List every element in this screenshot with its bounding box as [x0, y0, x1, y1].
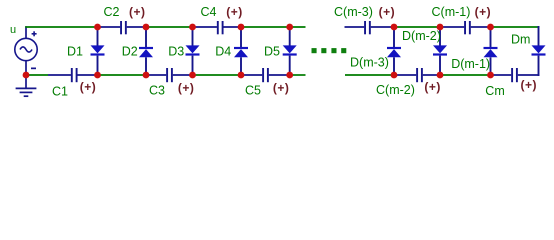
wire top rail navy: C2 to D2 node [127, 26, 146, 28]
wire bottom rail green: D3 node to D4 node [193, 74, 242, 76]
diode D1 [91, 26, 105, 76]
svg-text:D(m-3): D(m-3) [350, 55, 389, 69]
wire top rail navy: D3 node to C4 [193, 26, 217, 28]
svg-text:Dm: Dm [511, 33, 530, 47]
wire bottom rail navy: D(m-1) node to Cm [491, 74, 512, 76]
capacitor C(m-1) [464, 21, 471, 34]
wire bottom rail navy: C(m-2) to D(m-2) node [423, 74, 440, 76]
wire top rail navy: D1 node to C2 [98, 26, 121, 28]
svg-text:(+): (+) [178, 81, 195, 95]
diode D(m-1) [484, 26, 498, 76]
wire bottom rail green: D(m-2) node to D(m-1) node [440, 74, 491, 76]
svg-text:D(m-1): D(m-1) [451, 57, 490, 71]
junction dots top rail [94, 24, 494, 31]
svg-text:C5: C5 [245, 84, 261, 98]
svg-text:(+): (+) [379, 5, 396, 19]
wire source bottom vertical [25, 61, 27, 75]
svg-text:(+): (+) [521, 78, 538, 92]
svg-text:C(m-3): C(m-3) [334, 5, 373, 19]
wire bottom rail navy: Cm to Dm corner [518, 74, 540, 76]
svg-text:(+): (+) [129, 5, 146, 19]
wire top rail navy: C(m-3) to D(m-3) node [371, 26, 394, 28]
wire top rail green: D2 node to D3 node [146, 26, 193, 28]
svg-text:C1: C1 [52, 85, 68, 99]
diode D4 [234, 26, 248, 76]
svg-text:D2: D2 [122, 44, 138, 58]
junction dots bottom rail [23, 72, 494, 79]
svg-text:(+): (+) [424, 80, 441, 94]
capacitor C1 [71, 68, 78, 82]
diode D5 [283, 26, 297, 76]
capacitor C3 [166, 68, 173, 82]
wire top rail green: D(m-3) node to D(m-2) node [394, 26, 440, 28]
svg-text:D4: D4 [215, 44, 231, 58]
svg-text:(+): (+) [273, 81, 290, 95]
AC source U [15, 38, 37, 60]
wire bottom rail green: D5 node to left-section end [290, 74, 306, 76]
svg-text:D5: D5 [264, 44, 280, 58]
diode D(m-3) [387, 26, 401, 76]
wire top rail navy: D(m-2) node to C(m-1) [440, 26, 464, 28]
capacitor C5 [262, 68, 269, 82]
svg-text:D1: D1 [67, 44, 83, 58]
svg-text:(+): (+) [226, 5, 243, 19]
diode D(m-2) [433, 26, 447, 76]
diode D2 [139, 26, 153, 76]
wire top rail navy: right-section start to C(m-3) [345, 26, 365, 28]
diode Dm [532, 26, 546, 76]
capacitor Cm [511, 68, 518, 82]
wire source top vertical [25, 26, 27, 38]
plus polarity mark [32, 31, 37, 36]
svg-text:C4: C4 [201, 5, 217, 19]
svg-text:Cm: Cm [485, 84, 504, 98]
capacitor C(m-2) [416, 68, 423, 82]
wire bottom rail green: D1 node to D2 node [98, 74, 147, 76]
capacitor C(m-3) [364, 21, 371, 34]
wire bottom rail navy: to C1 [48, 74, 71, 76]
svg-text:C3: C3 [149, 84, 165, 98]
capacitor C2 [120, 21, 127, 34]
ground [16, 75, 37, 96]
wire top rail navy: C4 to D4 node [223, 26, 241, 28]
diode D3 [186, 26, 200, 76]
svg-text:D3: D3 [168, 44, 184, 58]
wire top rail green: D4 node to left-section end [241, 26, 306, 28]
wire bottom rail navy: C5 to D5 node [269, 74, 290, 76]
wire bottom rail green: source node [26, 74, 48, 76]
wire bottom rail navy: D(m-3) node to C(m-2) [394, 74, 416, 76]
wire bottom rail navy: C1 to D1 node [77, 74, 97, 76]
capacitor C4 [217, 21, 224, 34]
wire top rail green: D(m-1) node to Dm corner [491, 26, 540, 28]
svg-text:C(m-2): C(m-2) [376, 83, 415, 97]
svg-text:(+): (+) [80, 80, 97, 94]
svg-text:C(m-1): C(m-1) [432, 5, 471, 19]
wire bottom rail navy: D4 node to C5 [241, 74, 262, 76]
svg-text:D(m-2): D(m-2) [402, 29, 441, 43]
svg-text:u: u [10, 24, 16, 36]
wire bottom rail navy: D2 node to C3 [146, 74, 166, 76]
wire bottom rail green: right-section start to D(m-3) node [345, 74, 394, 76]
wire top rail green: source to D1 node [25, 26, 98, 28]
wire bottom rail navy: C3 to D3 node [173, 74, 193, 76]
minus polarity mark [31, 68, 36, 70]
ellipsis dots [312, 48, 347, 53]
svg-text:(+): (+) [475, 5, 492, 19]
wire top rail navy: C(m-1) to D(m-1) node [471, 26, 491, 28]
svg-text:C2: C2 [104, 5, 120, 19]
